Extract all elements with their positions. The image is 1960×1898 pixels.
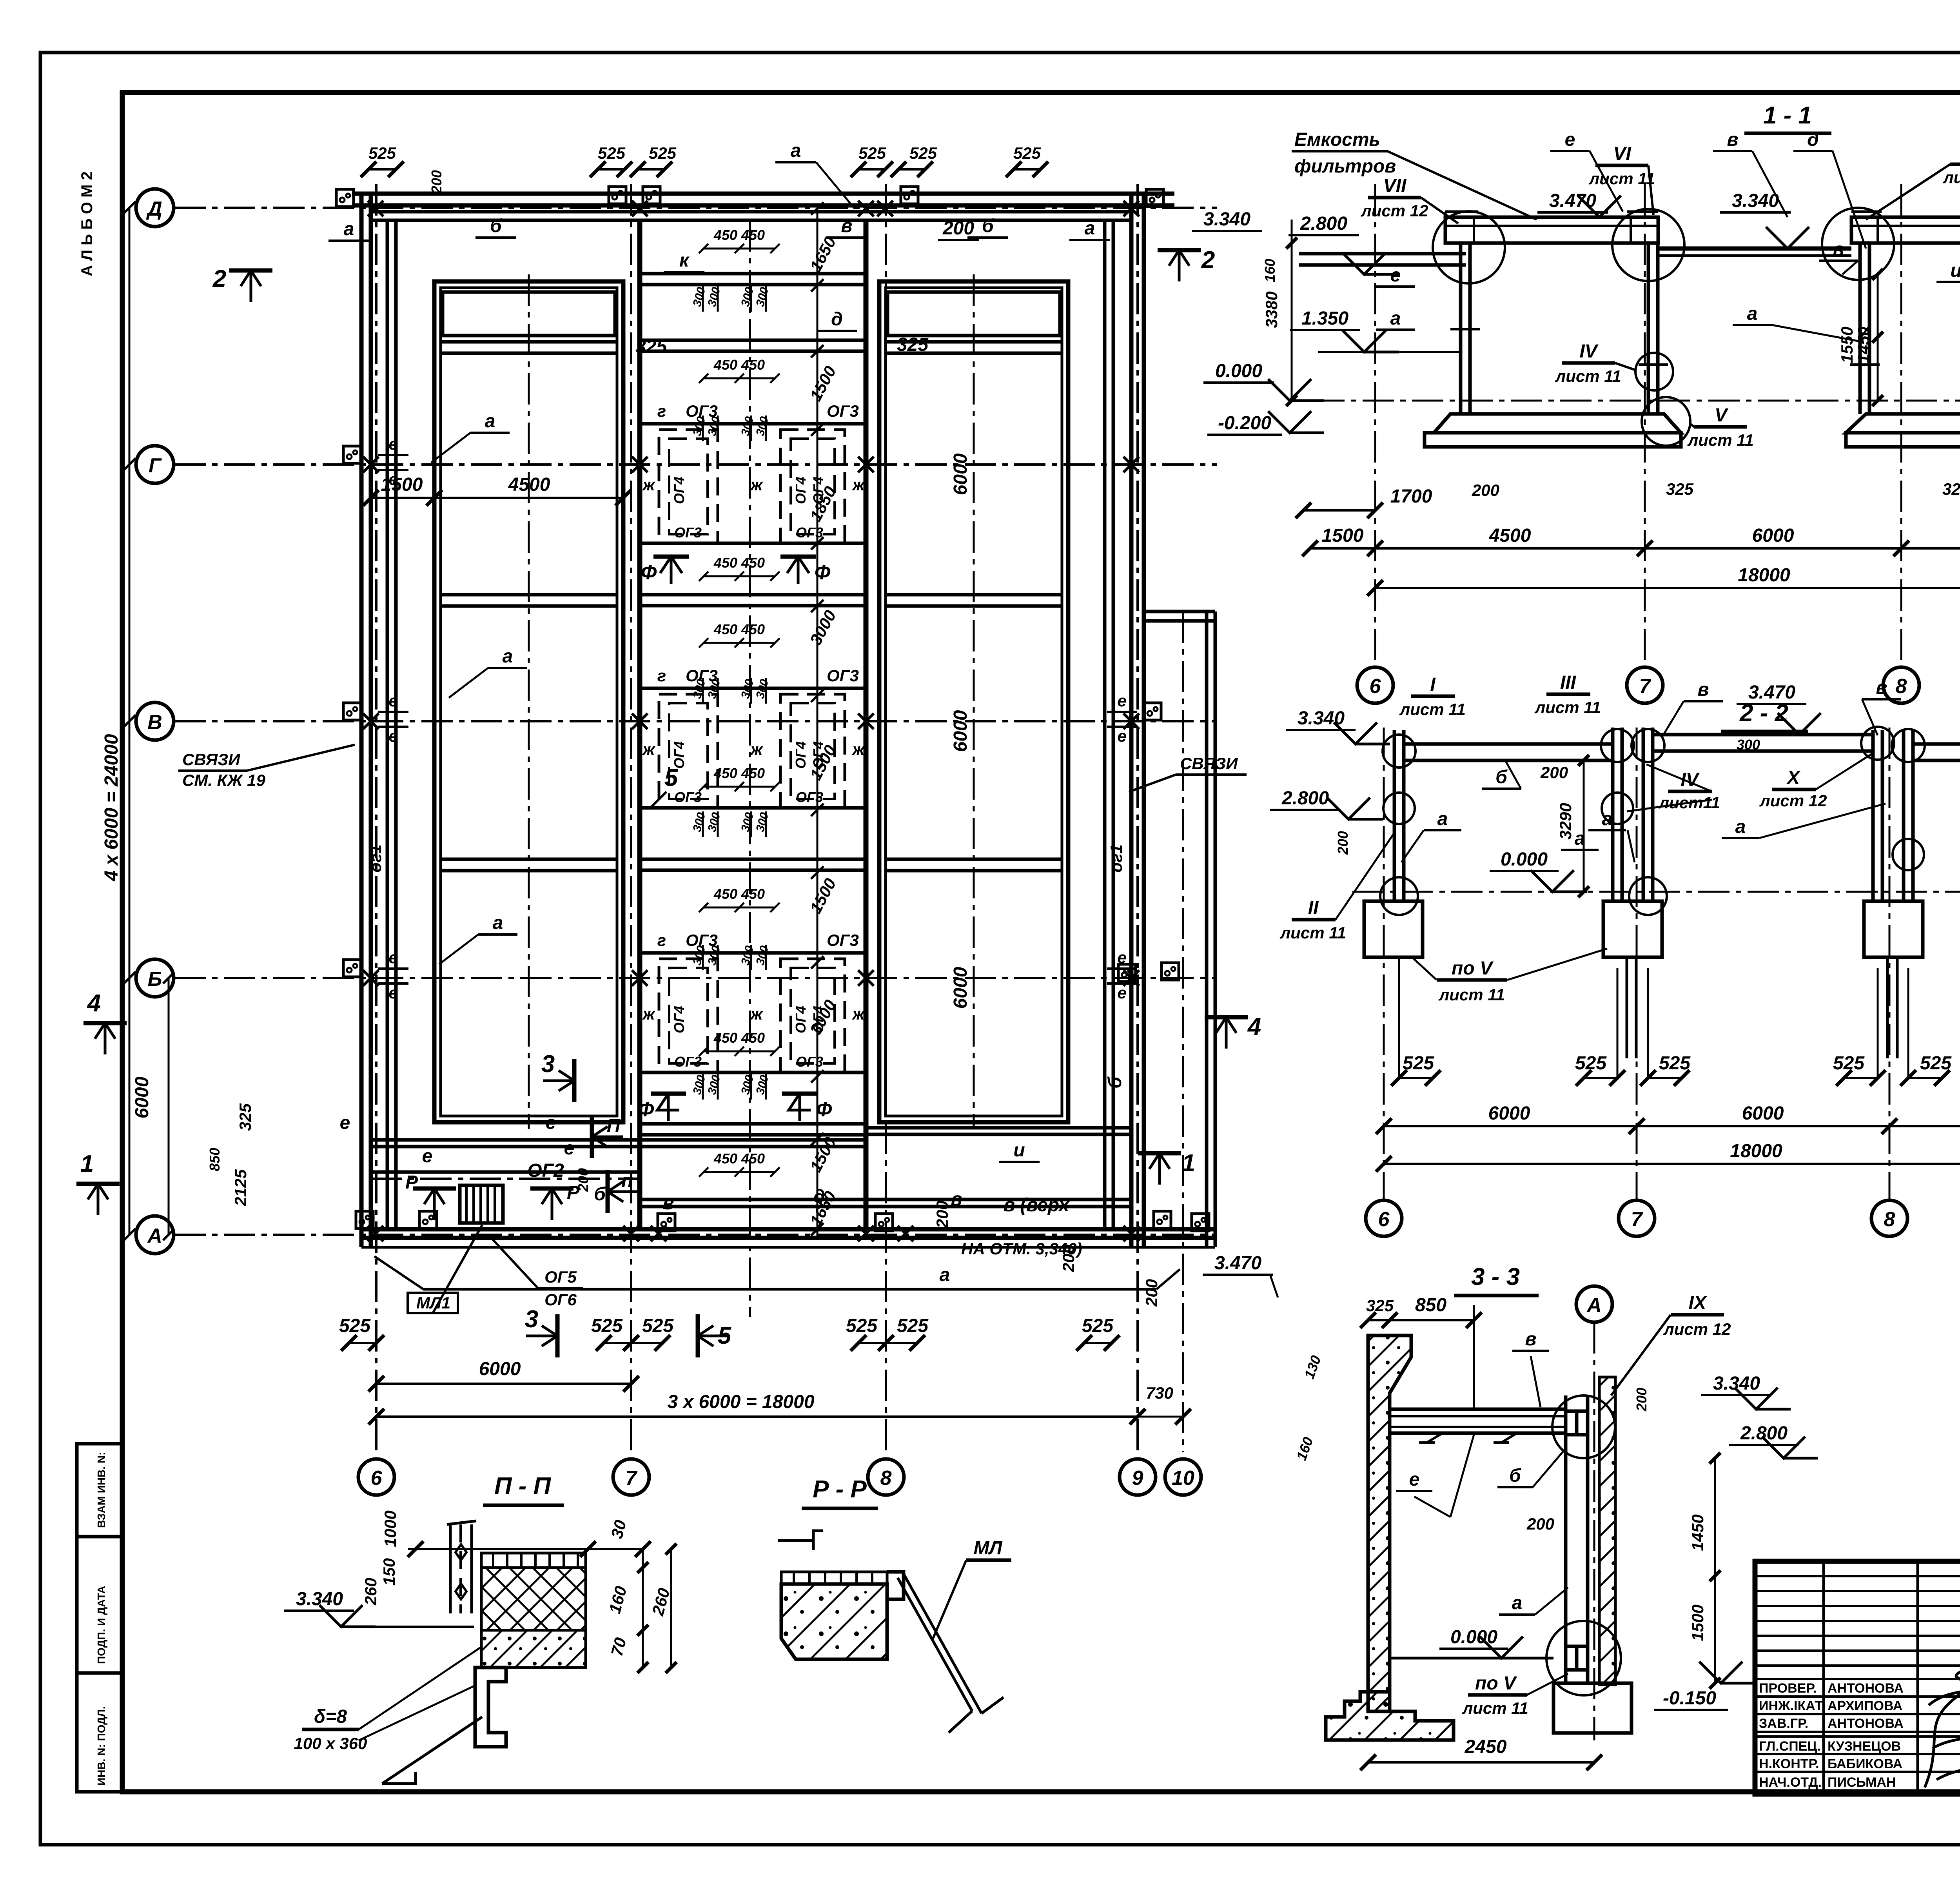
svg-text:СВЯЗИ: СВЯЗИ (182, 750, 240, 769)
svg-text:2.800: 2.800 (1300, 213, 1347, 234)
section 3-3 tank wall (1599, 1377, 1615, 1685)
svg-text:лист 12: лист 12 (1943, 168, 1960, 187)
svg-text:ОГ3: ОГ3 (674, 524, 702, 541)
section 3-3 floor beams (1390, 1408, 1564, 1411)
svg-text:Р - Р: Р - Р (813, 1476, 867, 1503)
svg-text:1.350: 1.350 (1301, 308, 1348, 329)
svg-text:СВЯЗИ: СВЯЗИ (1180, 754, 1238, 773)
svg-text:6000: 6000 (1488, 1103, 1530, 1124)
svg-text:лист 11: лист 11 (1279, 924, 1346, 942)
filter tank right top cell (887, 292, 1060, 336)
svg-text:0.000: 0.000 (1450, 1627, 1497, 1648)
left margin stamp column (77, 1444, 122, 1792)
corridor bay 3 OG4 box left (659, 959, 718, 1072)
section 3-3 axis A line (1593, 1322, 1595, 1740)
section 1-1 axis circle 8 (1883, 667, 1919, 703)
plan corridor wall v right (864, 220, 869, 1229)
svg-text:е: е (388, 948, 397, 967)
svg-text:Б: Б (148, 968, 162, 991)
section 2-2 beam 6-7 (1404, 744, 1613, 760)
svg-text:АНТОНОВА: АНТОНОВА (1828, 1716, 1904, 1731)
svg-text:е: е (388, 470, 397, 488)
svg-text:Ф: Ф (815, 561, 831, 584)
svg-text:1500: 1500 (381, 474, 423, 495)
svg-text:6000: 6000 (132, 1076, 152, 1118)
svg-text:325: 325 (1942, 480, 1960, 498)
filter tank right band 1 (886, 340, 1062, 344)
plan axis circle 10 (1165, 1459, 1201, 1495)
section 2-2 column axis6 (1393, 730, 1396, 901)
svg-text:X: X (1786, 768, 1801, 788)
svg-text:г: г (657, 931, 666, 949)
svg-text:лист 12: лист 12 (1759, 791, 1827, 810)
svg-text:VII: VII (1383, 176, 1407, 196)
section 1-1 bottom dims row2 (1375, 587, 1960, 589)
svg-text:ж: ж (750, 475, 764, 494)
section 3-3 floor line (1390, 1657, 1553, 1660)
svg-text:300: 300 (1737, 737, 1760, 753)
grille OG2 (460, 1185, 503, 1223)
corridor bay 2 OG4 box right (780, 694, 845, 808)
svg-text:450 450: 450 450 (713, 621, 765, 637)
svg-text:II: II (1308, 898, 1319, 918)
section 2-2 columns axis7 (1611, 728, 1615, 901)
svg-text:а: а (1575, 828, 1585, 849)
svg-text:в: в (841, 216, 853, 236)
svg-text:1 - 1: 1 - 1 (1763, 102, 1812, 129)
svg-text:лист 11: лист 11 (1588, 169, 1655, 188)
svg-text:3: 3 (541, 1051, 555, 1078)
corridor bay 3 OG4 box right (780, 959, 845, 1072)
svg-text:III: III (1560, 672, 1577, 693)
svg-text:е: е (340, 1112, 350, 1133)
svg-text:ОГ3: ОГ3 (686, 666, 718, 685)
corridor beam d top (640, 339, 866, 342)
svg-text:ОГ4: ОГ4 (671, 1006, 687, 1033)
section 2-2 columns axis8 (1871, 730, 1875, 901)
svg-text:ж: ж (642, 1005, 656, 1023)
svg-text:6000: 6000 (950, 453, 971, 495)
svg-text:4500: 4500 (508, 474, 550, 495)
section 2-2 footings (1364, 901, 1423, 957)
plan corridor center line (749, 220, 751, 1317)
svg-text:525: 525 (1082, 1316, 1114, 1336)
plan section arrow 5 marks (608, 1181, 639, 1202)
svg-text:525: 525 (909, 144, 937, 162)
svg-text:г: г (657, 402, 666, 420)
svg-text:П - П: П - П (494, 1473, 552, 1500)
svg-text:е: е (1390, 265, 1401, 286)
plan vertical dim chain (817, 209, 818, 1239)
svg-text:ОГ4: ОГ4 (671, 477, 687, 504)
svg-text:ИНЖ.IКАТ: ИНЖ.IКАТ (1759, 1698, 1823, 1713)
section 2-2 zero line (1352, 891, 1960, 893)
plan beam OG1 left (386, 220, 389, 1229)
title block frame (1755, 1561, 1960, 1794)
svg-text:5: 5 (664, 764, 679, 791)
svg-text:в: в (1876, 677, 1887, 698)
svg-text:ПИСЬМАН: ПИСЬМАН (1828, 1775, 1896, 1790)
svg-text:200: 200 (1540, 763, 1568, 782)
svg-text:ж: ж (852, 1005, 866, 1023)
corridor bay 1 line g lower (640, 542, 866, 545)
svg-text:ОГ3: ОГ3 (674, 789, 702, 805)
svg-text:200: 200 (933, 1201, 951, 1228)
svg-text:2.800: 2.800 (1281, 788, 1329, 809)
svg-text:6000: 6000 (950, 967, 971, 1009)
svg-text:е: е (388, 727, 397, 745)
svg-text:Г: Г (149, 454, 162, 477)
svg-text:3.340: 3.340 (1203, 209, 1250, 230)
plan beam i right bottom (866, 1126, 1131, 1130)
svg-text:850: 850 (1415, 1295, 1446, 1316)
svg-text:СМ. КЖ 19: СМ. КЖ 19 (182, 771, 265, 789)
svg-text:525: 525 (1403, 1053, 1434, 1074)
svg-text:4: 4 (87, 990, 101, 1017)
svg-text:к: к (679, 250, 690, 271)
svg-text:д: д (1807, 129, 1819, 150)
svg-text:а: а (1512, 1593, 1523, 1613)
plan bottom wall (361, 1227, 1215, 1232)
svg-text:д: д (831, 309, 843, 330)
section 2-2 axis circle 6 (1366, 1200, 1402, 1236)
filter tank right band 3 (886, 858, 1062, 861)
section 1-1 footing portal1 (1434, 414, 1681, 433)
plan top wall (352, 192, 1174, 196)
svg-text:450 450: 450 450 (713, 765, 765, 781)
plan axis circle Д (136, 189, 174, 227)
svg-text:200: 200 (1633, 1388, 1650, 1412)
svg-text:7: 7 (626, 1467, 638, 1490)
section 2-2 dim verticals (1398, 968, 1400, 1078)
section 2-2 dim 18000 row (1384, 1163, 1960, 1165)
svg-text:ОГ3: ОГ3 (686, 402, 718, 420)
svg-text:9: 9 (1132, 1467, 1143, 1490)
detail R-R concrete block (781, 1584, 887, 1659)
svg-text:ж: ж (852, 740, 866, 758)
svg-text:в: в (1727, 129, 1739, 150)
section 1-1 axis circle 7 (1627, 667, 1663, 703)
svg-text:1550: 1550 (1838, 327, 1856, 363)
corridor bay 2 beam d (640, 858, 866, 861)
plan section arrow 1 left (88, 1184, 108, 1215)
svg-text:е: е (388, 691, 397, 710)
svg-text:3: 3 (525, 1306, 538, 1333)
plan axis column lines (375, 184, 377, 1452)
corridor beam k (640, 272, 866, 276)
plan right extension wall (1205, 611, 1209, 1247)
svg-text:В: В (147, 711, 162, 734)
svg-text:200: 200 (428, 170, 445, 194)
svg-text:б: б (594, 1184, 606, 1205)
svg-text:1700: 1700 (1390, 486, 1432, 507)
svg-text:0.000: 0.000 (1215, 361, 1262, 381)
svg-text:200: 200 (575, 1168, 591, 1192)
svg-text:6000: 6000 (1742, 1103, 1784, 1124)
svg-text:по V: по V (1475, 1673, 1517, 1694)
svg-text:3 х 6000 = 18000: 3 х 6000 = 18000 (667, 1392, 814, 1412)
section 1-1 column 6-7 right (1647, 243, 1650, 414)
svg-text:525: 525 (642, 1316, 674, 1336)
svg-text:ж: ж (750, 740, 764, 758)
svg-text:6: 6 (1370, 675, 1381, 698)
filter tank left band 1 (441, 340, 617, 344)
svg-text:I: I (1430, 674, 1436, 695)
svg-text:ж: ж (642, 740, 656, 758)
svg-text:7: 7 (1639, 675, 1651, 698)
svg-text:4 х 6000 = 24000: 4 х 6000 = 24000 (101, 734, 122, 881)
svg-text:525: 525 (1013, 144, 1041, 162)
detail P-P bottom angle (382, 1717, 482, 1784)
plan right wall (1129, 194, 1134, 1247)
svg-text:VI: VI (1613, 143, 1632, 164)
svg-text:лист 12: лист 12 (1663, 1320, 1731, 1338)
svg-text:7: 7 (1631, 1208, 1643, 1231)
corridor bay 3 line g lower (640, 1071, 866, 1074)
section 1-1 column 8-9 left (1858, 243, 1862, 414)
corridor bay 1 line g upper (640, 422, 866, 426)
section 1-1 node circle VI (1612, 209, 1684, 281)
svg-text:525: 525 (846, 1316, 878, 1336)
svg-text:б: б (982, 216, 994, 236)
svg-text:и: и (1013, 1140, 1025, 1161)
corridor bay 1 OG4 box left (659, 430, 718, 543)
section 2-2 dim 6000 row (1384, 1125, 1960, 1127)
section 3-3 node circle bottom (1546, 1621, 1621, 1695)
svg-text:а: а (485, 411, 495, 432)
svg-text:δ=8: δ=8 (314, 1706, 347, 1727)
svg-text:325: 325 (236, 1103, 254, 1131)
svg-text:ОГ6: ОГ6 (544, 1290, 577, 1309)
svg-text:450 450: 450 450 (713, 1150, 765, 1167)
svg-text:ОГ4: ОГ4 (793, 477, 809, 504)
svg-text:1000: 1000 (381, 1510, 399, 1547)
svg-text:лист 11: лист 11 (1555, 367, 1621, 385)
plan F arrows bay1 (660, 557, 682, 584)
plan section arrow 3 bottom (526, 1326, 557, 1346)
svg-text:А Л Ь Б О М 2: А Л Ь Б О М 2 (78, 171, 96, 276)
svg-text:730: 730 (1146, 1384, 1173, 1402)
plan joint markers (368, 201, 383, 216)
corridor bay 2 OG4 box left (659, 694, 718, 808)
title block left column lines (1822, 1561, 1825, 1794)
section 2-2 axis circle 8 (1871, 1200, 1907, 1236)
filter tank left band 2 (441, 593, 617, 597)
svg-text:1450: 1450 (1854, 327, 1873, 363)
svg-text:а: а (791, 140, 801, 161)
section 3-3 right footing (1553, 1683, 1632, 1733)
svg-text:1500: 1500 (1688, 1604, 1707, 1641)
svg-text:6: 6 (371, 1467, 383, 1490)
section 1-1 node circle VII (1433, 211, 1505, 283)
plan axis circle 9 (1120, 1459, 1156, 1495)
svg-text:8: 8 (1896, 675, 1907, 698)
detail P-P slab crosshatch (481, 1568, 586, 1630)
plan section arrow 3 top (543, 1071, 574, 1091)
plan axis circle 6 (358, 1459, 394, 1495)
svg-text:6: 6 (1378, 1208, 1390, 1231)
svg-text:1: 1 (80, 1150, 94, 1178)
svg-text:п: п (621, 1170, 633, 1191)
svg-text:1: 1 (1182, 1150, 1195, 1177)
svg-text:ИНВ. N: ПОДЛ.: ИНВ. N: ПОДЛ. (95, 1706, 107, 1785)
svg-text:ог1: ог1 (1107, 844, 1125, 872)
section 3-3 column (1564, 1395, 1568, 1682)
section 1-1 column 6-7 left (1459, 243, 1463, 414)
svg-text:450 450: 450 450 (713, 227, 765, 243)
corridor bay 1 OG4 box right (780, 430, 845, 543)
svg-text:Р: Р (405, 1172, 418, 1193)
plan axis circle 7 (613, 1459, 649, 1495)
svg-text:АРХИПОВА: АРХИПОВА (1828, 1698, 1902, 1713)
plan axis circle А (136, 1216, 174, 1254)
svg-text:е: е (1117, 948, 1126, 967)
plan section arrow 4 left (95, 1023, 115, 1054)
svg-text:лист 11: лист 11 (1534, 698, 1601, 717)
section 1-1 portal beam 8-9 (1851, 217, 1960, 243)
svg-text:ОГ2: ОГ2 (527, 1160, 564, 1181)
svg-text:лист 11: лист 11 (1399, 700, 1466, 719)
detail R-R metal angle (887, 1572, 904, 1599)
svg-text:а: а (1735, 817, 1746, 837)
svg-text:е: е (422, 1146, 433, 1167)
svg-text:ГЛ.СПЕЦ.: ГЛ.СПЕЦ. (1759, 1739, 1821, 1754)
svg-text:8: 8 (880, 1467, 892, 1490)
svg-text:ог1: ог1 (366, 844, 385, 872)
svg-text:БАБИКОВА: БАБИКОВА (1828, 1756, 1902, 1771)
plan axis row lines (174, 207, 1217, 209)
svg-text:в: в (1833, 239, 1844, 260)
svg-text:ЗАВ.ГР.: ЗАВ.ГР. (1759, 1716, 1808, 1731)
svg-text:в: в (1698, 679, 1709, 700)
svg-text:лист 12: лист 12 (1361, 201, 1428, 220)
svg-text:е: е (1117, 983, 1126, 1002)
corridor bay 3 line g upper (640, 951, 866, 955)
plan F arrows bay3 (657, 1094, 679, 1121)
svg-text:-0.200: -0.200 (1218, 413, 1271, 434)
section 2-2 axis lines (1383, 728, 1385, 1199)
detail P-P speckle layer (481, 1630, 586, 1668)
plan column squares (336, 189, 354, 207)
svg-text:200: 200 (1526, 1515, 1554, 1533)
svg-text:в: в (1525, 1329, 1537, 1350)
svg-text:ОГ3: ОГ3 (686, 931, 718, 949)
section 3-3 left footing (1326, 1692, 1454, 1740)
plan right extension connector (1144, 610, 1215, 613)
svg-text:КУЗНЕЦОВ: КУЗНЕЦОВ (1828, 1739, 1901, 1754)
corridor bay 1 beam d (640, 593, 866, 597)
svg-text:3380: 3380 (1262, 291, 1281, 328)
svg-text:а: а (344, 219, 354, 240)
section 2-2 beam 7-8 (1653, 735, 1873, 751)
svg-text:Емкость: Емкость (1294, 129, 1380, 150)
detail P-P channel beam (475, 1668, 506, 1747)
detail R-R sloping sheet ML (898, 1574, 1004, 1733)
plan section arrow 4 right (1216, 1017, 1236, 1049)
svg-text:3.470: 3.470 (1214, 1253, 1261, 1274)
svg-text:Д: Д (146, 198, 162, 220)
detail P-P column (449, 1524, 452, 1613)
svg-text:П: П (607, 1116, 621, 1136)
corridor bay 2 line g upper (640, 687, 866, 690)
svg-text:ОГ4: ОГ4 (810, 1006, 826, 1033)
svg-text:е: е (1409, 1469, 1420, 1490)
section 1-1 zero level line (1313, 400, 1960, 402)
svg-text:2450: 2450 (1465, 1737, 1507, 1757)
section 1-1 node circle V (1642, 397, 1690, 446)
filter tank left top cell (443, 292, 615, 336)
plan section arrow 2 left (241, 270, 261, 302)
svg-text:100 х 360: 100 х 360 (294, 1734, 367, 1753)
svg-text:ОГ4: ОГ4 (793, 1006, 809, 1033)
svg-text:525: 525 (858, 144, 886, 162)
svg-text:2125: 2125 (231, 1169, 250, 1207)
svg-text:МЛ1: МЛ1 (416, 1294, 450, 1312)
svg-text:IX: IX (1688, 1293, 1707, 1314)
section 2-2 beam 8-9 (1913, 744, 1960, 760)
svg-text:по V: по V (1452, 958, 1494, 979)
svg-text:6000: 6000 (479, 1359, 521, 1379)
svg-text:ПРОВЕР.: ПРОВЕР. (1759, 1681, 1817, 1696)
svg-text:фильтров: фильтров (1294, 156, 1396, 177)
title block signatures scribble (1925, 1670, 1960, 1787)
filter tank left band 3 (441, 858, 617, 861)
plan top edge beam b (371, 210, 1131, 214)
filter tank right outer (879, 281, 1068, 1122)
section 1-1 footing portal2 (1846, 414, 1960, 433)
plan axis circle В (136, 702, 174, 740)
svg-text:а: а (1085, 218, 1095, 239)
corridor bottom beam e OG2 (371, 1170, 640, 1174)
svg-text:3.340: 3.340 (1732, 191, 1779, 211)
svg-text:200: 200 (1142, 1279, 1161, 1307)
svg-text:10: 10 (1172, 1467, 1194, 1490)
svg-text:Н.КОНТР.: Н.КОНТР. (1759, 1756, 1819, 1771)
svg-text:ОГ3: ОГ3 (674, 1054, 702, 1070)
svg-text:525: 525 (649, 144, 677, 162)
section 1-1 middle beam d (1658, 247, 1851, 251)
svg-text:450 450: 450 450 (713, 357, 765, 373)
svg-text:ОГ5: ОГ5 (544, 1268, 577, 1286)
svg-text:АНТОНОВА: АНТОНОВА (1828, 1681, 1904, 1696)
section 1-1 portal beam 6-7 (1445, 217, 1658, 243)
plan section arrow 1 right (1149, 1153, 1170, 1185)
svg-text:а: а (940, 1265, 950, 1285)
title block left change rows (1755, 1575, 1960, 1577)
svg-text:ОГ3: ОГ3 (796, 524, 823, 541)
svg-text:450 450: 450 450 (713, 886, 765, 902)
svg-text:325: 325 (1366, 1296, 1394, 1315)
svg-text:е: е (388, 983, 397, 1002)
svg-text:а: а (493, 913, 503, 933)
section 1-1 node circle VIII (1822, 208, 1894, 280)
section 2-2 tank walls below (1626, 957, 1628, 1058)
svg-text:е: е (1117, 727, 1126, 745)
svg-text:6000: 6000 (1752, 525, 1794, 546)
svg-text:850: 850 (207, 1148, 223, 1171)
svg-text:А: А (147, 1225, 162, 1247)
svg-text:и: и (1950, 260, 1960, 281)
svg-text:д: д (813, 1186, 825, 1207)
svg-text:ж: ж (852, 475, 866, 494)
svg-text:1500: 1500 (1322, 525, 1364, 546)
svg-text:ж: ж (750, 1005, 764, 1023)
detail R-R tile row (781, 1572, 887, 1584)
svg-text:200: 200 (1472, 481, 1499, 499)
svg-text:V: V (1715, 405, 1729, 426)
svg-text:Ф: Ф (638, 1098, 654, 1121)
svg-text:ВЗАМ ИНВ. N:: ВЗАМ ИНВ. N: (95, 1452, 107, 1528)
